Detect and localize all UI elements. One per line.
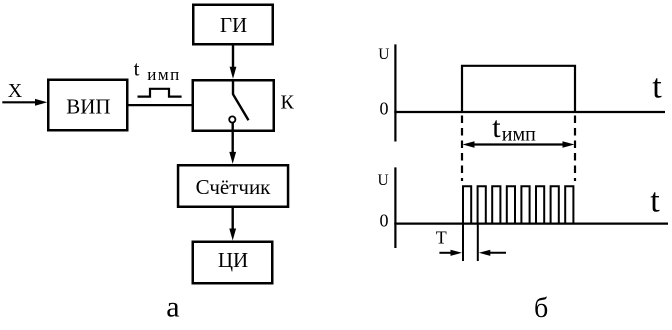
wire Счётчик to ЦИ with arrow <box>229 208 236 241</box>
svg-text:U: U <box>378 172 389 189</box>
dashed line right <box>574 116 576 182</box>
svg-text:а: а <box>166 291 179 324</box>
svg-text:T: T <box>436 227 447 247</box>
T arrow left (pointing right) <box>439 250 462 256</box>
svg-text:ВИП: ВИП <box>66 95 110 119</box>
block К <box>193 80 274 131</box>
T period marker right tick <box>477 224 479 261</box>
pulse waveform top <box>462 66 575 111</box>
switch contact circle <box>229 116 235 122</box>
switch contact line <box>233 80 249 120</box>
svg-text:б: б <box>534 293 548 324</box>
svg-text:t: t <box>650 183 660 220</box>
svg-text:имп: имп <box>147 65 180 84</box>
T period marker left tick <box>462 224 464 261</box>
block Счётчик <box>178 165 288 207</box>
T arrow right (pointing left) <box>479 250 506 256</box>
svg-text:имп: имп <box>502 123 536 145</box>
axis t top (horizontal) <box>394 111 665 113</box>
wire ВИП to К <box>129 104 192 106</box>
axis t bottom (horizontal) <box>394 223 668 225</box>
svg-text:U: U <box>378 46 389 63</box>
axis U top (vertical) <box>394 44 396 141</box>
svg-text:ГИ: ГИ <box>220 13 247 37</box>
wire К to Счётчик with arrow <box>229 123 236 164</box>
block ЦИ <box>193 242 273 284</box>
svg-text:Счётчик: Счётчик <box>196 175 272 199</box>
svg-text:0: 0 <box>380 99 389 119</box>
dashed line left <box>461 116 463 182</box>
svg-text:0: 0 <box>380 210 389 230</box>
block ГИ <box>193 5 273 45</box>
axis U bottom (vertical) <box>394 167 396 248</box>
svg-text:X: X <box>8 80 23 102</box>
wire ГИ to К with arrow <box>230 46 237 79</box>
svg-text:t: t <box>652 69 662 106</box>
svg-text:ЦИ: ЦИ <box>218 248 248 272</box>
svg-text:t: t <box>492 111 501 144</box>
arrow X to ВИП <box>2 99 47 106</box>
dimension arrow t имп <box>463 141 575 147</box>
svg-text:К: К <box>281 91 295 113</box>
svg-text:t: t <box>134 57 140 81</box>
block ВИП <box>48 80 127 131</box>
pulse train <box>463 186 573 223</box>
pulse symbol on wire <box>138 89 182 97</box>
